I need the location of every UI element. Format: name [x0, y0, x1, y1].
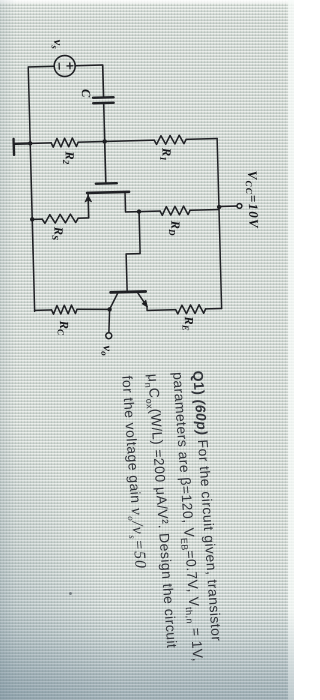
svg-text:R1: R1	[158, 147, 174, 161]
source vs	[54, 55, 76, 77]
svg-text:vo: vo	[99, 345, 115, 356]
svg-text:RD: RD	[167, 219, 183, 236]
bottom rail wire	[28, 68, 34, 311]
wire node G to R2	[78, 140, 104, 143]
wire RC to rail	[35, 309, 52, 311]
vo wire	[108, 309, 110, 332]
stray pen dot	[69, 592, 72, 595]
bjt collector lead	[109, 293, 118, 309]
mosfet U1 gate bar	[96, 182, 117, 185]
Vcc stub	[219, 205, 237, 207]
problem text block	[110, 370, 230, 700]
node collector	[107, 307, 112, 312]
resistor RC wire	[77, 308, 110, 310]
node G	[102, 139, 107, 144]
vo terminal	[106, 333, 112, 339]
Vcc terminal	[237, 204, 242, 209]
svg-text:VCC=10V: VCC=10V	[244, 170, 262, 229]
svg-text:R2: R2	[61, 150, 77, 165]
soft shading overlays	[0, 0, 294, 3]
svg-text:C: C	[79, 89, 93, 98]
wire RE to rail	[206, 307, 222, 309]
bjt emitter lead	[138, 292, 147, 306]
wire R2 to ground rail	[30, 142, 51, 145]
bjt emitter arrow	[142, 300, 147, 307]
resistor R2	[51, 138, 78, 147]
node rail-bottom	[28, 141, 33, 146]
node drain	[137, 209, 142, 214]
svg-text:RE: RE	[180, 315, 196, 331]
mosfet drain lead	[125, 192, 139, 212]
capacitor C	[93, 97, 114, 103]
emitter wire	[147, 306, 176, 311]
mosfet U1 channel bar	[87, 192, 129, 193]
resistor RC	[51, 305, 77, 314]
wire vs bottom to rail	[28, 65, 54, 68]
mosfet source lead	[78, 193, 89, 218]
resistor RS	[42, 214, 78, 224]
wire cap to node G	[104, 103, 105, 141]
svg-text:vs: vs	[50, 39, 66, 49]
mosfet source arrow	[85, 195, 92, 202]
wire gate	[105, 141, 106, 183]
bjt Q1 base bar	[111, 290, 146, 294]
node Vcc	[217, 205, 222, 210]
resistor RE	[176, 305, 206, 314]
ground	[14, 138, 31, 154]
wire RS to rail	[32, 218, 42, 220]
base wire	[125, 212, 141, 291]
svg-text:RS: RS	[50, 226, 66, 241]
wire gate column top	[186, 138, 217, 141]
wire R1 to node G	[105, 140, 154, 141]
resistor RD	[160, 206, 190, 215]
svg-text:RC: RC	[55, 319, 71, 336]
wire RD top	[190, 209, 219, 212]
Vcc rail	[217, 139, 221, 309]
wire vs top to cap	[75, 65, 103, 98]
resistor R1	[154, 135, 186, 144]
node RS-rail	[30, 217, 35, 222]
wire RD to drain node	[139, 210, 160, 213]
